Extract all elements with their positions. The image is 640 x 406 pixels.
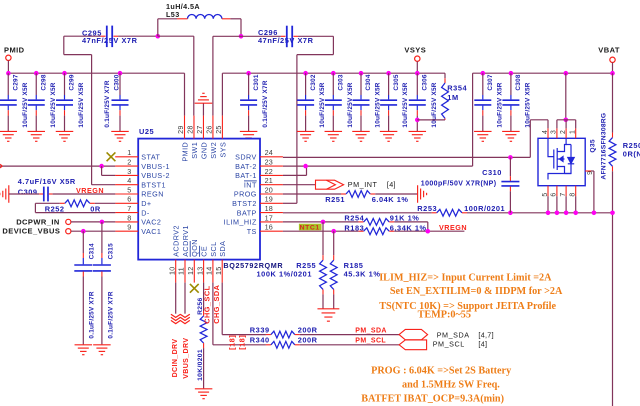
node VBUS join <box>99 164 104 169</box>
node C315 <box>100 220 105 225</box>
ground below C298 <box>28 130 46 132</box>
no-ERC squiggle ACDRV2 <box>171 314 181 317</box>
svg-text:[18]: [18] <box>228 335 237 350</box>
pin 9 VAC1 <box>115 230 138 232</box>
pin 4 BTST1 <box>115 184 138 186</box>
svg-text:9: 9 <box>587 171 594 175</box>
svg-text:D-: D- <box>141 208 150 217</box>
ground below C303 <box>325 130 343 132</box>
resistor R339 <box>266 334 271 336</box>
svg-text:SDA: SDA <box>218 241 227 257</box>
svg-text:VBUS-1: VBUS-1 <box>141 162 170 171</box>
ground below C306 <box>409 130 427 132</box>
wire PMID bus <box>8 72 184 74</box>
resistor R354 <box>444 73 446 78</box>
svg-text:C300: C300 <box>113 74 120 90</box>
node VREGN join <box>426 229 431 234</box>
pin 8 VAC2 <box>115 221 138 223</box>
junction <box>592 211 597 216</box>
svg-text:21: 21 <box>265 176 273 185</box>
svg-text:47nF/25V X7R: 47nF/25V X7R <box>82 36 138 45</box>
node C303 <box>331 71 336 76</box>
svg-text:PMID: PMID <box>180 142 189 162</box>
pin 11 ACDRV1 <box>184 260 186 283</box>
svg-text:7: 7 <box>560 193 567 197</box>
svg-text:BATFET IBAT_OCP=9.3A(min): BATFET IBAT_OCP=9.3A(min) <box>361 393 504 404</box>
svg-text:10uF/25V X5R: 10uF/25V X5R <box>496 82 503 127</box>
svg-text:PM_SCL: PM_SCL <box>433 340 465 349</box>
resistor R251 on PROG <box>283 193 341 195</box>
svg-text:ACDRV1: ACDRV1 <box>181 225 190 257</box>
capacitor C307 <box>482 73 484 95</box>
svg-text:C302: C302 <box>310 74 317 90</box>
svg-text:47nF/25V X7R: 47nF/25V X7R <box>258 36 314 45</box>
resistor R250 <box>612 73 614 132</box>
svg-text:2: 2 <box>127 158 131 167</box>
svg-text:28: 28 <box>186 125 195 133</box>
svg-text:18: 18 <box>265 204 273 213</box>
wire L53 left leg <box>158 18 177 20</box>
svg-text:CE: CE <box>200 246 209 257</box>
wire VBAT flag drop <box>612 63 614 74</box>
svg-text:PROG: PROG <box>234 190 257 199</box>
junction <box>573 211 578 216</box>
ground below C305 <box>380 130 398 132</box>
node PMID-C297 <box>6 71 11 76</box>
svg-text:4: 4 <box>542 130 549 134</box>
power port VSYS <box>415 56 420 61</box>
svg-text:BAT-2: BAT-2 <box>235 162 257 171</box>
overline QON <box>189 241 191 257</box>
resistor R254 <box>364 219 390 226</box>
ground below C314 <box>75 344 93 346</box>
node C299 <box>62 71 67 76</box>
svg-text:BTST1: BTST1 <box>141 180 166 189</box>
svg-text:11: 11 <box>177 267 186 275</box>
junction <box>564 211 569 216</box>
resistor R185 <box>333 231 335 255</box>
svg-text:PM_SCL: PM_SCL <box>355 338 386 345</box>
svg-text:10uF/25V X5R: 10uF/25V X5R <box>78 82 85 127</box>
node VBAT-R250 <box>610 71 615 76</box>
svg-text:1: 1 <box>570 130 577 134</box>
pin 15 SDA <box>221 260 223 283</box>
capacitor C301 <box>248 73 250 95</box>
svg-text:6.34K 1%: 6.34K 1% <box>390 223 427 232</box>
svg-text:15: 15 <box>214 267 223 275</box>
pin 16 TS <box>260 230 283 232</box>
pin 12 QON <box>193 260 195 283</box>
svg-text:24: 24 <box>265 148 273 157</box>
node C304 <box>359 71 364 76</box>
svg-text:BTST2: BTST2 <box>232 199 257 208</box>
svg-text:TEMP:0~55: TEMP:0~55 <box>418 309 471 320</box>
svg-text:22: 22 <box>265 167 273 176</box>
svg-text:VBUS_DRV: VBUS_DRV <box>183 338 190 379</box>
pin 18 BATP <box>260 212 283 214</box>
pin 24 SDRV <box>260 156 283 158</box>
wire ILIM_HIZ row <box>283 221 359 223</box>
svg-text:200R: 200R <box>298 326 318 335</box>
svg-text:[4]: [4] <box>387 180 396 189</box>
svg-text:0R: 0R <box>90 205 101 214</box>
power port VBAT <box>610 57 615 62</box>
ground below C304 <box>352 130 370 132</box>
ground below C302 <box>297 130 315 132</box>
svg-text:INT: INT <box>244 180 257 189</box>
svg-text:8: 8 <box>127 213 131 222</box>
svg-text:REGN: REGN <box>141 190 164 199</box>
svg-text:3: 3 <box>127 167 131 176</box>
capacitor C304 <box>360 73 362 95</box>
svg-text:C305: C305 <box>393 74 400 90</box>
wire battery sense down right edge <box>612 213 614 406</box>
junction <box>508 211 513 216</box>
node C298 <box>34 71 39 76</box>
svg-text:VBUS-2: VBUS-2 <box>141 171 170 180</box>
svg-text:10uF/25V X5R: 10uF/25V X5R <box>402 82 409 127</box>
node C301 <box>246 71 251 76</box>
svg-text:L53: L53 <box>166 10 180 19</box>
wire pin29 riser <box>184 73 186 115</box>
op-amp U25 charger IC body <box>138 139 260 260</box>
wire ACDRV1 stub <box>184 283 186 314</box>
svg-text:NTC1: NTC1 <box>300 225 320 232</box>
pin 3 VBUS-2 <box>115 174 138 176</box>
svg-text:[4]: [4] <box>478 340 487 349</box>
svg-text:ACDRV2: ACDRV2 <box>172 225 181 257</box>
svg-text:25: 25 <box>214 125 223 133</box>
svg-text:Set EN_EXTILIM=0 & IIDPM for >: Set EN_EXTILIM=0 & IIDPM for >2A <box>390 286 563 297</box>
pin 2 VBUS-1 <box>115 165 138 167</box>
svg-text:C310: C310 <box>482 168 502 177</box>
pin 14 SCL <box>212 260 214 283</box>
svg-text:C298: C298 <box>40 74 47 90</box>
ground above pin27 GND <box>202 103 204 115</box>
wire VSYS bus <box>222 72 445 74</box>
wire C295 right to SW1 node <box>118 35 158 37</box>
svg-text:6.04K 1%: 6.04K 1% <box>372 195 409 204</box>
svg-text:26: 26 <box>205 125 214 133</box>
wire PMID flag drop <box>7 61 9 74</box>
svg-text:BAT-1: BAT-1 <box>235 171 257 180</box>
svg-text:DEVICE_VBUS: DEVICE_VBUS <box>2 227 60 236</box>
svg-text:1: 1 <box>127 148 131 157</box>
wire Q35 source drop <box>565 73 567 120</box>
ground below C299 <box>56 130 74 132</box>
svg-text:D+: D+ <box>141 199 151 208</box>
svg-text:R183: R183 <box>344 223 364 232</box>
capacitor C310 <box>509 157 511 176</box>
pin 23 BAT-2 <box>260 165 283 167</box>
svg-text:PM_INT: PM_INT <box>348 180 378 189</box>
wire SW2 down to pin26 <box>213 35 241 37</box>
svg-text:27: 27 <box>195 125 204 133</box>
wire BAT-1 jog <box>283 174 307 176</box>
svg-text:QON: QON <box>190 239 199 257</box>
svg-text:17: 17 <box>265 213 273 222</box>
svg-text:PM_SDA: PM_SDA <box>355 328 387 335</box>
svg-text:20: 20 <box>265 185 273 194</box>
svg-text:GND: GND <box>199 142 208 159</box>
svg-text:VREGN: VREGN <box>76 186 104 195</box>
svg-text:100K 1%/0201: 100K 1%/0201 <box>257 269 313 278</box>
svg-text:CHG_SCL: CHG_SCL <box>203 285 212 323</box>
svg-text:C297: C297 <box>12 74 19 90</box>
wire L53 right leg <box>230 18 241 20</box>
pin 26 SW2 <box>212 116 214 139</box>
node C310 top <box>508 155 513 160</box>
junction <box>610 211 615 216</box>
wire VBAT bus to BAT pins <box>472 73 474 166</box>
node R255 tap <box>321 220 326 225</box>
svg-text:19: 19 <box>265 195 273 204</box>
svg-text:5: 5 <box>542 193 549 197</box>
svg-text:[18]: [18] <box>238 335 247 350</box>
node R185 tap <box>331 229 336 234</box>
ground below C315 <box>93 344 111 346</box>
overline CE <box>199 246 201 257</box>
node C300 <box>118 71 123 76</box>
svg-text:0R(NP): 0R(NP) <box>623 149 640 158</box>
node C302 <box>303 71 308 76</box>
svg-text:9: 9 <box>127 223 131 232</box>
port PM_SCL <box>399 340 427 350</box>
port PM_SDA <box>399 329 428 339</box>
wire SYS riser pin25 <box>221 73 223 115</box>
svg-text:4.7uF/16V X5R: 4.7uF/16V X5R <box>18 177 76 186</box>
svg-text:2: 2 <box>560 130 567 134</box>
overline INT <box>244 180 257 182</box>
pin 25 SYS <box>221 116 223 139</box>
capacitor C298 <box>35 73 37 95</box>
pin 13 CE <box>203 260 205 283</box>
pin 7 D- <box>115 212 138 214</box>
svg-text:STAT: STAT <box>141 153 160 162</box>
resistor R256 on CE <box>203 283 205 311</box>
label NTC1 highlighted <box>299 224 322 231</box>
svg-text:6: 6 <box>127 195 131 204</box>
wire SW1 down to pin28 <box>158 35 194 37</box>
wire BAT-2 row <box>283 165 473 167</box>
mosfet symbol inside Q35 <box>548 138 574 179</box>
capacitor C300 <box>119 73 121 95</box>
capacitor C302 <box>305 73 307 95</box>
svg-text:PROG : 6.04K =>Set 2S Battery: PROG : 6.04K =>Set 2S Battery <box>371 365 511 376</box>
wire VBAT bus <box>473 72 613 74</box>
svg-text:16: 16 <box>265 223 273 232</box>
ground below C300 <box>111 130 129 132</box>
node C307 <box>481 71 486 76</box>
wire ACDRV2 stub <box>175 283 177 314</box>
capacitor C297 <box>7 73 9 95</box>
resistor R252 D+ to D- <box>95 202 116 204</box>
svg-text:AFN7716SFN308RG: AFN7716SFN308RG <box>601 113 608 180</box>
svg-text:200R: 200R <box>298 336 318 345</box>
svg-text:29: 29 <box>176 125 185 133</box>
ground below C308 <box>502 130 520 132</box>
node BAT join <box>303 164 308 169</box>
resistor R340 <box>266 344 271 346</box>
pin 5 REGN <box>115 193 138 195</box>
svg-text:C309: C309 <box>18 187 38 196</box>
power port PMID <box>6 55 11 60</box>
capacitor C306 <box>416 73 418 95</box>
no-connect X pin1 STAT <box>107 152 116 161</box>
svg-text:BATP: BATP <box>237 208 257 217</box>
svg-text:SYS: SYS <box>218 142 227 158</box>
capacitor C303 <box>332 73 334 95</box>
svg-text:SW1: SW1 <box>190 142 199 159</box>
svg-text:23: 23 <box>265 158 273 167</box>
resistor R253 <box>437 209 462 216</box>
node C314 <box>81 229 86 234</box>
svg-text:R339: R339 <box>250 326 270 335</box>
wire C295 left to BTST1 staircase <box>64 35 101 37</box>
svg-text:ILIM_HIZ: ILIM_HIZ <box>224 218 257 227</box>
ground below C297 <box>0 130 17 132</box>
svg-text:4: 4 <box>127 176 131 185</box>
node C308 <box>509 71 514 76</box>
svg-text:91K 1%: 91K 1% <box>390 214 420 223</box>
svg-text:14: 14 <box>205 267 214 275</box>
svg-text:3: 3 <box>551 130 558 134</box>
svg-text:10uF/25V X5R: 10uF/25V X5R <box>50 82 57 127</box>
node SW2 <box>239 34 244 39</box>
svg-text:R253: R253 <box>417 204 437 213</box>
svg-text:C308: C308 <box>515 74 522 90</box>
wire SDRV row <box>283 156 530 158</box>
svg-text:C303: C303 <box>338 74 345 90</box>
wire TS row <box>283 230 359 232</box>
svg-text:0.1uF/25V X7R: 0.1uF/25V X7R <box>262 80 269 127</box>
svg-text:R354: R354 <box>447 83 467 92</box>
node C305 <box>386 71 391 76</box>
junction <box>546 211 551 216</box>
svg-text:SDRV: SDRV <box>235 153 257 162</box>
node SW1 <box>156 34 161 39</box>
svg-text:VBAT: VBAT <box>598 46 620 55</box>
svg-text:C301: C301 <box>253 74 260 90</box>
svg-text:7: 7 <box>127 204 131 213</box>
svg-text:TS: TS <box>247 227 257 236</box>
svg-text:8: 8 <box>570 193 577 197</box>
ground below R255 R185 <box>317 308 339 310</box>
svg-text:ILIM_HIZ=> Input Current Limit: ILIM_HIZ=> Input Current Limit =2A <box>379 272 552 283</box>
svg-text:VAC1: VAC1 <box>141 227 161 236</box>
pin 27 GND <box>202 116 204 139</box>
ground below C301 <box>240 130 258 132</box>
svg-text:C314: C314 <box>89 243 96 259</box>
capacitor C314 <box>82 231 84 253</box>
no-ERC squiggle ACDRV1 <box>180 314 190 317</box>
ground below R256 <box>195 388 213 390</box>
svg-text:and 1.5MHz SW Freq.: and 1.5MHz SW Freq. <box>402 379 500 390</box>
wire VSYS flag drop <box>416 61 418 73</box>
svg-text:VAC2: VAC2 <box>141 218 161 227</box>
capacitor C299 <box>64 73 66 95</box>
svg-text:PM_SDA: PM_SDA <box>437 330 470 339</box>
node Q35 drop <box>564 71 569 76</box>
wire BATP row with R253 <box>283 212 432 214</box>
pin 19 BTST2 <box>260 202 283 204</box>
pin 10 ACDRV2 <box>175 260 177 283</box>
pin 28 SW1 <box>193 116 195 139</box>
resistor R183 <box>364 228 390 235</box>
svg-text:C315: C315 <box>107 243 114 259</box>
svg-text:1000pF/50V X7R(NP): 1000pF/50V X7R(NP) <box>421 180 497 187</box>
svg-text:DCPWR_IN: DCPWR_IN <box>16 218 60 227</box>
node Q35 pins 1-3 <box>564 118 569 123</box>
flag PM_INT <box>316 180 344 189</box>
svg-text:R254: R254 <box>344 214 364 223</box>
ground right of R251 <box>417 185 419 203</box>
svg-text:12: 12 <box>186 267 195 275</box>
svg-text:VREGN: VREGN <box>439 223 467 232</box>
svg-text:0.1uF/25V X7R: 0.1uF/25V X7R <box>104 80 111 127</box>
svg-text:DCIN_DRV: DCIN_DRV <box>172 339 179 378</box>
svg-text:Q35: Q35 <box>590 139 597 152</box>
junction <box>555 211 560 216</box>
capacitor C308 <box>510 73 512 95</box>
no-connect X pin12 QON <box>190 284 199 293</box>
wire SDA down and right <box>221 283 223 335</box>
svg-text:6: 6 <box>551 193 558 197</box>
svg-text:C307: C307 <box>487 74 494 90</box>
svg-text:10uF/25V X5R: 10uF/25V X5R <box>431 82 438 127</box>
wire SCL down and right <box>212 283 214 345</box>
svg-text:5: 5 <box>127 185 131 194</box>
pin 20 PROG <box>260 193 283 195</box>
node C306-R354 <box>415 118 420 123</box>
svg-text:R340: R340 <box>250 336 270 345</box>
svg-text:10K/0201: 10K/0201 <box>197 349 204 381</box>
svg-text:0.1uF/25V X7R: 0.1uF/25V X7R <box>89 291 96 338</box>
svg-text:0.1uF/25V X7R: 0.1uF/25V X7R <box>107 291 114 338</box>
pin 6 D+ <box>115 202 138 204</box>
svg-text:R252: R252 <box>45 205 65 214</box>
resistor R255 <box>322 222 324 255</box>
wire VBUS off-page left <box>0 165 115 167</box>
svg-text:VSYS: VSYS <box>404 46 426 55</box>
pin 1 STAT <box>115 156 138 158</box>
capacitor C305 <box>388 73 390 95</box>
wire INT row to PM_INT flag <box>283 184 316 186</box>
pin 21 INT <box>260 184 283 186</box>
pin 29 PMID <box>184 116 186 139</box>
capacitor C315 <box>101 222 103 253</box>
svg-text:R251: R251 <box>325 195 345 204</box>
svg-text:100R/0201: 100R/0201 <box>464 204 505 213</box>
wire VBUS-2 jog <box>101 166 103 175</box>
pin 17 ILIM_HIZ <box>260 221 283 223</box>
svg-text:13: 13 <box>195 267 204 275</box>
svg-text:SCL: SCL <box>209 241 218 256</box>
wire C296 right to BTST2 <box>298 35 333 37</box>
svg-text:1M: 1M <box>447 93 458 102</box>
pin 22 BAT-1 <box>260 174 283 176</box>
svg-text:C299: C299 <box>69 74 76 90</box>
svg-text:SW2: SW2 <box>209 142 218 159</box>
svg-text:PMID: PMID <box>4 46 25 55</box>
svg-text:C304: C304 <box>365 74 372 90</box>
svg-text:10: 10 <box>167 267 176 275</box>
pin 9 pad Q35 <box>585 170 591 172</box>
ground below C307 <box>474 130 492 132</box>
svg-text:U25: U25 <box>139 127 154 136</box>
wire C296 left <box>241 35 281 37</box>
svg-text:45.3K 1%: 45.3K 1% <box>344 269 381 278</box>
